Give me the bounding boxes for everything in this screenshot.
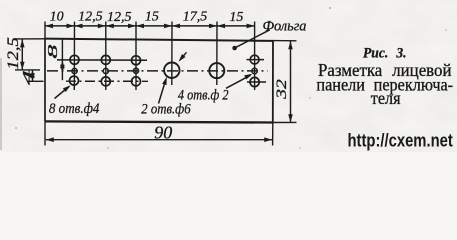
right dim line 32 — [290, 41, 292, 122]
svg-text:12,5: 12,5 — [107, 10, 132, 25]
leader: 4 otv d2 — [226, 75, 251, 88]
hole d2 c3 — [133, 68, 138, 73]
leader arrowhead 4 otv — [244, 72, 253, 80]
top row line stub right column — [247, 59, 265, 61]
hole d4 top row c2 — [101, 55, 110, 64]
leader stroke at d6 no.1 upper right — [180, 52, 187, 60]
left 12,5 arrows — [20, 39, 25, 47]
column centerline 4 (hole d6 no.1) — [171, 22, 173, 86]
extension line: top-left corner to left — [15, 38, 45, 40]
svg-text:15: 15 — [145, 10, 159, 25]
svg-text:10: 10 — [50, 10, 64, 25]
left 4 arrows — [30, 70, 35, 78]
top dim arrow pair at tick x74.5 — [67, 24, 75, 29]
hole d2 right — [252, 68, 257, 73]
extension line: top-right corner to 32-dim — [273, 40, 296, 42]
hole d6 no.2 — [209, 63, 224, 78]
svg-text:90: 90 — [154, 122, 172, 142]
arrowheads — [20, 24, 293, 142]
top dimension line — [45, 25, 255, 27]
hole d4 bottom row right — [250, 77, 259, 86]
scan speckles — [15, 7, 447, 149]
left dim line 12,5 — [21, 39, 23, 70]
svg-text:http://cxem.net: http://cxem.net — [348, 130, 453, 150]
hole d6 no.1 — [164, 62, 179, 77]
middle row centerline (dash-dot) — [47, 70, 268, 72]
hole d4 bottom row c2 — [101, 77, 110, 86]
bottom row line stub right column — [247, 81, 266, 83]
column centerline 3 — [135, 22, 137, 91]
hole d4 top row right — [250, 55, 259, 64]
bottom row centerline (dash-dot) — [66, 80, 148, 82]
leader: folga (foil) with dot — [235, 30, 270, 48]
svg-text:4: 4 — [20, 69, 35, 85]
leader: 8 otv d4 — [55, 87, 70, 99]
svg-text:17,5: 17,5 — [183, 10, 208, 25]
dim line 8 (inside panel) — [61, 39, 63, 80]
leader arrowhead 8 otv — [63, 83, 72, 92]
svg-text:Фольга: Фольга — [263, 19, 307, 35]
panel outline (front panel 90x32) — [45, 39, 274, 123]
extension line: panel right edge down to 90-dim — [272, 123, 274, 146]
leader: 2 otv d6 — [159, 80, 166, 104]
8 dim arrows — [60, 60, 65, 68]
left dim line 4 — [32, 70, 34, 81]
hole d4 bottom row c1 — [70, 76, 79, 85]
column centerline 2 — [105, 22, 107, 91]
hole d4 bottom row c3 — [132, 77, 141, 86]
svg-text:32: 32 — [274, 79, 290, 100]
svg-text:2 отв.ф6: 2 отв.ф6 — [141, 102, 191, 118]
top row line — [57, 59, 147, 61]
svg-text:12,5: 12,5 — [78, 10, 103, 25]
paper noise — [0, 0, 457, 152]
svg-text:4 отв.ф 2: 4 отв.ф 2 — [178, 88, 229, 104]
leader arrowhead d6 upper right — [177, 54, 186, 63]
top dim arrow at right tick — [247, 24, 255, 29]
svg-text:8 отв.ф4: 8 отв.ф4 — [49, 101, 100, 117]
top dim arrow pair at tick x136 — [128, 24, 136, 29]
90 dim arrows — [46, 137, 54, 142]
bottom dim line 90 — [46, 139, 272, 141]
column centerline 5 (hole d6 no.2) — [216, 22, 218, 86]
top dim arrow pair at tick x105.8 — [98, 24, 106, 29]
svg-text:12,5: 12,5 — [5, 37, 22, 70]
top dim arrow at left tick — [45, 24, 53, 29]
column centerline 1 — [73, 22, 75, 91]
extension line: middle row to left — [15, 69, 40, 71]
scan smear left edge — [0, 58, 2, 150]
extension line: panel left edge down to 90-dim — [44, 121, 46, 145]
extension line: bottom row to left — [28, 80, 44, 82]
top dim arrow pair at tick x172 — [164, 24, 172, 29]
svg-text:теля: теля — [371, 88, 401, 108]
foil leader dot — [232, 46, 237, 51]
extension line: bottom-right corner to 32-dim — [273, 121, 297, 123]
column centerline 6 (right column) — [254, 22, 256, 91]
leader arrowhead 2 otv — [162, 76, 169, 85]
svg-text:8: 8 — [46, 45, 61, 59]
32 dim arrows — [288, 41, 293, 49]
hole d4 top row c3 — [132, 56, 141, 65]
top dim arrow pair at tick x217 — [209, 24, 217, 29]
extension line: panel left edge up to dim line — [44, 22, 46, 40]
hole d4 top row c1 — [70, 55, 79, 64]
svg-text:15: 15 — [229, 10, 243, 25]
hole d2 c1 — [72, 68, 77, 73]
hole d2 c2 — [103, 68, 108, 73]
